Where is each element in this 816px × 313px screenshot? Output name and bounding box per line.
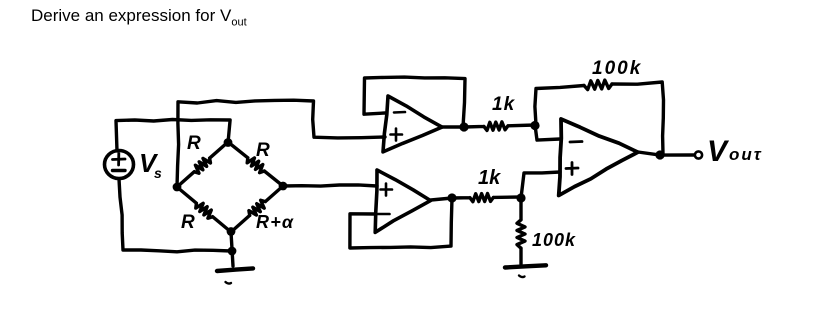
node U3 non-inverting input junction [516,193,525,202]
resistor R7 100k (U3 feedback) [584,80,612,90]
node bridge bottom [227,227,236,236]
output terminal [695,151,702,158]
resistor R5 1k (U1 output to U3 inverting input) [464,122,535,130]
wire bridge bottom to ground [231,232,233,266]
wire U1 feedback loop [364,77,465,127]
node bridge left [173,183,182,192]
svg-text:100k: 100k [532,230,576,250]
svg-text:1k: 1k [492,94,516,115]
op-amp U2 (bottom buffer) [375,170,430,232]
wire bridge left node to op-amp U1 non-inverting input [177,100,385,187]
op-amp U1 (top buffer) [383,96,442,152]
svg-text:V: V [707,135,730,168]
svg-text:ouτ: ouτ [729,145,763,164]
wire U3 feedback up [535,86,584,126]
wire U2 feedback loop [350,198,452,248]
resistor R8 100k (to ground) [517,198,525,264]
wire Vs top to bridge top node [116,120,230,152]
label Vout [707,135,763,168]
wire U2 output [431,198,452,200]
resistor R6 1k (U2 output to U3 non-inverting input) [452,194,521,202]
ground symbol G1 [217,268,253,283]
wire U3 feedback right and down [612,82,664,154]
resistor R4 (bridge bottom-right, R+alpha) [231,186,283,232]
label Vs [139,148,162,181]
op-amp U3 (difference amplifier) [559,119,638,196]
node U3 output [655,150,664,159]
resistor R2 (bridge top-right) [228,142,283,186]
svg-text:R+α: R+α [256,212,294,232]
resistor R3 (bridge bottom-left) [177,187,231,232]
node ground junction [228,247,237,256]
node U1 output [459,122,468,131]
svg-text:R: R [256,140,270,161]
svg-text:R: R [181,212,195,233]
title text [31,6,247,28]
svg-text:1k: 1k [478,167,501,189]
wire Vs bottom to ground junction [119,179,231,252]
resistor R1 (bridge top-left) [177,142,228,187]
node U3 inverting input junction [530,121,539,130]
wire to U3 non-inverting input [521,172,560,198]
node bridge top [224,138,233,147]
ground symbol G2 [505,265,546,277]
wire U3 output [638,152,694,155]
node U2 output [447,193,456,202]
wire to U3 inverting input [535,125,560,140]
svg-text:R: R [187,133,201,154]
wire U1 output [442,125,464,128]
svg-text:s: s [154,165,162,181]
voltage source Vs [105,151,134,179]
node bridge right [279,182,288,191]
wire bridge right node to op-amp U2 non-inverting input [283,185,377,186]
svg-text:100k: 100k [592,58,642,79]
